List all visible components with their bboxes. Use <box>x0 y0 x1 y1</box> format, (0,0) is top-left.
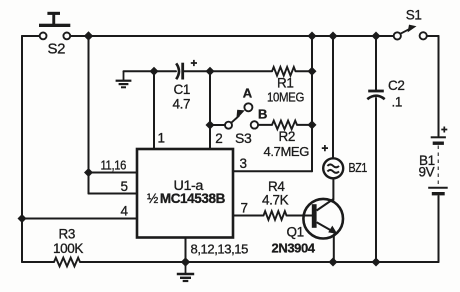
pushbutton S2 <box>39 12 70 58</box>
wire Q1 emitter to bottom rail <box>333 235 335 263</box>
capacitor C1 <box>173 60 198 112</box>
svg-text:BZ1: BZ1 <box>349 161 368 175</box>
wire BZ1 to Q1 collector <box>332 179 334 200</box>
svg-text:R4: R4 <box>268 179 285 194</box>
wire pin 1 vertical <box>153 71 155 149</box>
node left rail / pin 4 <box>18 214 27 223</box>
wire B contact to R2 <box>258 124 272 126</box>
wire pin 3 row <box>233 170 312 172</box>
wire pin 5 row <box>89 193 138 195</box>
svg-text:7: 7 <box>241 201 248 216</box>
wire pin 11,16 row <box>89 172 138 174</box>
wire C1/R1 row <box>124 70 313 72</box>
node R2 right <box>308 120 317 129</box>
svg-text:4.7K: 4.7K <box>262 193 289 208</box>
wire top rail main segment <box>70 35 393 37</box>
ground (below IC) <box>177 262 194 281</box>
wire R2 right to node <box>297 124 312 126</box>
node top rail / BZ1 <box>329 32 338 41</box>
svg-text:9V: 9V <box>419 165 435 180</box>
wire C2 column <box>375 36 377 262</box>
ground (C1 row, top-left) <box>116 71 132 87</box>
capacitor C2 <box>367 78 404 109</box>
svg-text:S1: S1 <box>406 8 422 23</box>
buzzer BZ1 <box>322 145 368 178</box>
wire right rail upper (to battery) <box>438 36 440 136</box>
svg-text:10MEG: 10MEG <box>267 90 304 105</box>
wire top rail right segment to corner <box>427 35 439 37</box>
node top rail / R-column <box>308 32 317 41</box>
node A contact <box>244 103 252 111</box>
resistor R3 <box>53 227 83 267</box>
switch S1 <box>394 8 427 40</box>
op-amp U1 box (IC U1-a) <box>137 149 233 238</box>
wire left rail <box>21 36 23 262</box>
resistor R4 <box>262 179 289 220</box>
wire top rail left segment <box>22 35 40 37</box>
wire S3 common stub <box>210 124 225 126</box>
svg-text:R3: R3 <box>59 227 75 242</box>
wire S2 junction vertical x=88.5 <box>88 36 90 194</box>
svg-text:2: 2 <box>215 131 222 146</box>
wire right rail lower (battery to bottom rail) <box>438 196 440 262</box>
node ground / bottom rail <box>181 257 190 266</box>
node S2/top rail <box>84 31 93 40</box>
svg-text:R2: R2 <box>279 129 295 144</box>
svg-text:C1: C1 <box>174 82 190 97</box>
svg-text:B: B <box>258 107 267 122</box>
svg-text:4.7MEG: 4.7MEG <box>264 144 310 159</box>
svg-text:R1: R1 <box>277 75 293 90</box>
svg-text:Q1: Q1 <box>287 225 304 240</box>
node B contact <box>251 121 258 128</box>
svg-text:S3: S3 <box>235 130 252 146</box>
node C1 right / pin2 <box>206 67 215 76</box>
battery B1 <box>419 127 448 194</box>
switch S3 <box>225 85 267 145</box>
svg-text:1: 1 <box>158 131 165 146</box>
node top rail / C2 <box>372 32 381 41</box>
svg-text:.1: .1 <box>392 95 402 110</box>
node pins 11,16 / 5 <box>84 168 93 177</box>
svg-text:A: A <box>243 85 253 100</box>
wire pin 7 / R4 row <box>233 215 313 217</box>
node R1 right <box>308 67 317 76</box>
svg-text:100K: 100K <box>53 241 83 256</box>
wire BZ1 top feed <box>332 36 334 158</box>
svg-text:2N3904: 2N3904 <box>272 240 316 255</box>
resistor R2 <box>264 121 310 159</box>
node C2 / bottom rail <box>372 258 381 267</box>
svg-text:11,16: 11,16 <box>101 158 127 173</box>
svg-text:S2: S2 <box>48 41 66 58</box>
wire pin 2 vertical <box>209 71 211 149</box>
wire IC pins 8,12,13,15 to ground <box>185 238 187 262</box>
svg-text:C2: C2 <box>388 78 404 93</box>
transistor Q1 <box>272 199 344 256</box>
svg-text:3: 3 <box>240 156 247 171</box>
resistor R1 <box>267 67 304 105</box>
svg-text:8,12,13,15: 8,12,13,15 <box>191 242 249 256</box>
node S3 common / pin2 column <box>206 121 215 130</box>
svg-text:4.7: 4.7 <box>173 97 191 112</box>
node C1 left / pin1 <box>150 67 159 76</box>
svg-text:4: 4 <box>121 204 129 219</box>
wire node column x=312 <box>311 36 313 171</box>
node emitter / bottom rail <box>329 258 338 267</box>
wire bottom rail <box>22 261 439 263</box>
svg-text:5: 5 <box>121 179 128 194</box>
wire pin 4 row <box>22 218 137 220</box>
